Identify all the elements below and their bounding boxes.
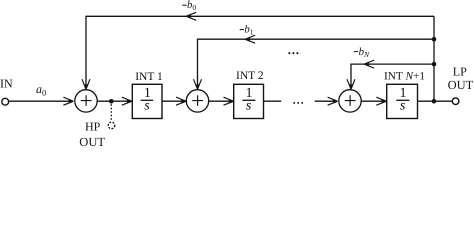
arrowhead down into S2: [194, 79, 202, 89]
svg-text:OUT: OUT: [79, 135, 105, 147]
arrowhead into INT N+1: [376, 97, 386, 105]
LP output terminal: [452, 98, 459, 105]
input terminal: [2, 98, 9, 105]
wire INT2 stub: [264, 100, 282, 102]
HP output terminal (dashed): [108, 122, 115, 129]
arrowhead left on -bN line: [364, 60, 374, 68]
wire S3 to INT N+1: [361, 100, 385, 102]
arrowhead left on -b0 line: [186, 12, 196, 20]
svg-text:a0: a0: [36, 82, 46, 98]
wire to summer S3: [315, 100, 337, 102]
svg-text:b1: b1: [244, 24, 253, 37]
junction node HP tap: [109, 99, 114, 104]
arrowhead into INT1: [122, 97, 132, 105]
summer S3: [339, 90, 361, 112]
feedback wire -b1 from bus down to S2: [198, 39, 435, 88]
wire IN to summer S1: [9, 100, 73, 102]
ellipsis on main line: [293, 102, 303, 104]
svg-text:s: s: [246, 98, 252, 113]
svg-text:HP: HP: [85, 119, 101, 133]
integrator INT 1 box: [132, 84, 162, 118]
feedback bus vertical: [433, 16, 435, 101]
wire S2 to INT2: [209, 100, 233, 102]
integrator INT 2 box: [234, 84, 264, 118]
arrowhead into S1: [63, 97, 73, 105]
arrowhead down into S3: [347, 79, 355, 89]
feedback wire -bN from bus down to S3: [351, 64, 434, 88]
svg-text:INT N+1: INT N+1: [384, 71, 425, 83]
feedback wire -b0 from bus corner down to S1: [86, 16, 434, 88]
wire INT1 to summer S2: [162, 100, 185, 102]
arrowhead into S3: [328, 97, 338, 105]
wire INT N+1 to LP OUT: [418, 100, 453, 102]
summer S1: [75, 90, 97, 112]
summer S2: [186, 90, 208, 112]
junction -b1 on bus: [432, 37, 437, 42]
arrowhead down into S1: [82, 79, 90, 89]
dashed tap wire to HP OUT: [110, 104, 112, 121]
label -bN: [354, 51, 358, 53]
label -b0: [182, 4, 186, 6]
svg-text:INT 2: INT 2: [236, 70, 264, 82]
svg-text:s: s: [144, 98, 150, 113]
arrowhead into S2: [176, 97, 186, 105]
svg-text:LP: LP: [453, 65, 467, 79]
arrowhead left on -b1 line: [245, 35, 255, 43]
svg-text:IN: IN: [0, 77, 13, 91]
wire S1 to INT1: [97, 100, 131, 102]
ellipsis between feedback lines: [288, 52, 298, 54]
svg-text:INT 1: INT 1: [135, 71, 163, 83]
arrowhead into INT2: [224, 97, 234, 105]
svg-text:b0: b0: [187, 0, 196, 12]
svg-text:OUT: OUT: [448, 78, 474, 92]
svg-text:bN: bN: [359, 46, 370, 59]
svg-text:s: s: [400, 98, 406, 113]
label -b1: [240, 29, 244, 31]
junction node LP on main wire: [432, 99, 437, 104]
integrator INT N+1 box: [387, 84, 418, 118]
junction -bN on bus: [432, 62, 437, 67]
